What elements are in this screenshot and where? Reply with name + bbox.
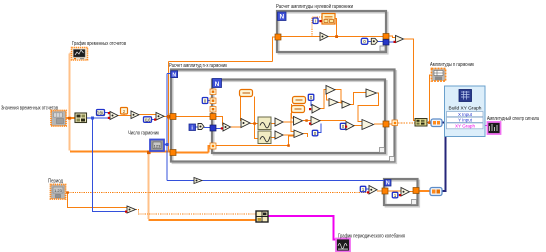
svg-text:Build XY Graph: Build XY Graph xyxy=(449,106,482,112)
svg-text:N: N xyxy=(172,73,176,79)
svg-text:Значения временных отсчетов: Значения временных отсчетов xyxy=(1,106,58,112)
svg-text:XY Graph: XY Graph xyxy=(455,124,476,129)
svg-text:N: N xyxy=(386,181,390,187)
svg-text:Период: Период xyxy=(48,179,63,185)
svg-text:N: N xyxy=(279,14,284,21)
svg-text:Амплитуды n гармоник: Амплитуды n гармоник xyxy=(430,62,474,68)
svg-text:I16: I16 xyxy=(145,118,151,123)
svg-text:DBL: DBL xyxy=(96,110,105,115)
svg-text:i: i xyxy=(315,19,316,24)
svg-text:Расчет амплитуд n-х гармоник: Расчет амплитуд n-х гармоник xyxy=(169,63,227,69)
svg-text:Расчет амплитуды нулевой гармо: Расчет амплитуды нулевой гармоники xyxy=(276,3,353,10)
svg-text:График временных отсчетов: График временных отсчетов xyxy=(72,41,126,47)
svg-text:График периодического колебани: График периодического колебания xyxy=(338,234,405,240)
svg-text:Амплитудный спектр сигнала: Амплитудный спектр сигнала xyxy=(487,115,540,122)
svg-text:N: N xyxy=(215,81,220,88)
svg-text:X Input: X Input xyxy=(458,112,473,117)
svg-text:1.23: 1.23 xyxy=(54,188,63,193)
svg-text:123: 123 xyxy=(154,144,161,149)
svg-text:Y Input: Y Input xyxy=(458,118,473,123)
svg-text:Число гармоник: Число гармоник xyxy=(128,131,159,137)
